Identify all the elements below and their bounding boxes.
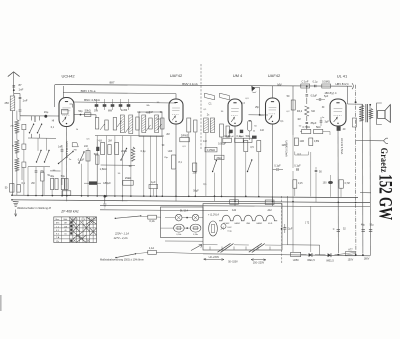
svg-text:0,1µ: 0,1µ [141, 150, 146, 153]
svg-text:87: 87 [19, 83, 23, 87]
svg-text:Graetz: Graetz [379, 148, 390, 173]
svg-text:0,05µF: 0,05µF [218, 142, 227, 146]
svg-text:0,1µF: 0,1µF [78, 159, 85, 162]
svg-text:U250: U250 [293, 259, 300, 262]
svg-text:152 GW: 152 GW [375, 174, 397, 220]
svg-text:0,1: 0,1 [22, 182, 26, 185]
svg-text:Wellenschalter in Stellung M: Wellenschalter in Stellung M [17, 206, 52, 210]
svg-text:1M: 1M [128, 166, 131, 168]
svg-text:1nF: 1nF [23, 99, 28, 103]
svg-text:UAF: UAF [168, 150, 173, 153]
svg-text:BMV 4,1mA: BMV 4,1mA [182, 82, 197, 86]
svg-text:2M: 2M [108, 140, 111, 143]
svg-text:1nF: 1nF [260, 129, 265, 132]
svg-text:250: 250 [4, 101, 9, 105]
svg-text:1,5kΩ: 1,5kΩ [100, 167, 107, 171]
svg-text:180µF: 180µF [103, 181, 111, 185]
svg-text:1,1A: 1,1A [149, 246, 155, 250]
svg-text:0,7M: 0,7M [345, 183, 350, 185]
svg-text:UM 4: UM 4 [233, 73, 243, 78]
svg-text:0,1µ: 0,1µ [313, 81, 318, 84]
svg-text:0,1Hz: 0,1Hz [193, 234, 198, 236]
svg-text:180V: 180V [364, 257, 370, 260]
svg-text:BNC 4,8mA: BNC 4,8mA [84, 98, 100, 102]
svg-text:U2–230V: U2–230V [209, 256, 220, 259]
svg-text:DFW3: DFW3 [181, 133, 189, 137]
svg-text:0,1Hz: 0,1Hz [176, 234, 181, 236]
svg-text:2M: 2M [166, 134, 169, 136]
svg-text:·180·8(y)·4: ·180·8(y)·4 [324, 91, 337, 95]
svg-text:0,15MΩ: 0,15MΩ [207, 150, 215, 152]
svg-text:150–220V: 150–220V [253, 261, 265, 264]
svg-text:BMV 17k-a: BMV 17k-a [81, 89, 96, 93]
svg-text:50µ: 50µ [61, 175, 66, 178]
svg-text:40µ: 40µ [361, 225, 366, 227]
svg-text:UAF42 0,5mA: UAF42 0,5mA [285, 141, 289, 158]
svg-text:40µ: 40µ [50, 175, 55, 178]
svg-text:0,15: 0,15 [298, 183, 303, 185]
svg-text:UAF42: UAF42 [234, 222, 240, 225]
svg-text:UM4: UM4 [246, 223, 250, 225]
svg-text:5kΩ: 5kΩ [94, 153, 99, 156]
svg-text:0,1µ: 0,1µ [228, 230, 233, 232]
svg-text:UAF42: UAF42 [268, 73, 281, 78]
svg-text:20kΩ: 20kΩ [121, 150, 127, 153]
svg-text:50µF: 50µF [193, 190, 199, 193]
svg-text:12M: 12M [300, 141, 305, 143]
svg-text:0,1A: 0,1A [149, 219, 155, 223]
svg-text:1M: 1M [297, 119, 300, 121]
svg-text:UAF42: UAF42 [170, 73, 183, 78]
svg-text:HBV 81V,4: HBV 81V,4 [335, 82, 349, 86]
svg-text:A42: A42 [232, 209, 237, 212]
svg-text:4M2: 4M2 [146, 112, 151, 115]
svg-text:Ber.: Ber. [56, 218, 60, 221]
svg-text:1nF: 1nF [19, 88, 24, 92]
svg-text:127V~ 2,2A: 127V~ 2,2A [113, 236, 127, 240]
svg-text:0,1µF: 0,1µF [274, 164, 281, 167]
svg-text:150V: 150V [348, 259, 354, 262]
svg-text:2µF: 2µF [288, 228, 293, 231]
svg-text:A42: A42 [267, 209, 272, 212]
svg-text:MV: MV [277, 82, 281, 86]
svg-text:C: C [333, 228, 335, 231]
svg-text:UAF42: UAF42 [256, 222, 262, 225]
svg-text:50p: 50p [78, 110, 83, 113]
svg-text:50pF: 50pF [239, 136, 245, 138]
svg-text:16µ: 16µ [44, 110, 49, 114]
svg-text:25kΩ: 25kΩ [216, 158, 222, 160]
svg-text:Wel.: Wel. [63, 219, 68, 221]
svg-text:4,8: 4,8 [98, 140, 102, 143]
svg-text:0,1µF: 0,1µF [228, 136, 234, 138]
svg-text:Maßstababweichung 150Ω ± 10%: Maßstababweichung 150Ω ± 10% 8mm [100, 258, 144, 261]
svg-text:J 72: J 72 [305, 223, 310, 225]
svg-text:1nF: 1nF [203, 141, 208, 143]
svg-text:220V~ 1,1A: 220V~ 1,1A [114, 231, 129, 235]
svg-text:0,7MΩ: 0,7MΩ [302, 126, 310, 129]
svg-text:+ (1,2V) A: + (1,2V) A [208, 213, 220, 216]
svg-text:887: 887 [109, 81, 114, 85]
svg-text:UL 41: UL 41 [337, 74, 348, 79]
svg-text:C 1nF: C 1nF [301, 80, 308, 84]
svg-text:5kΩ: 5kΩ [316, 126, 321, 129]
svg-text:UL41: UL41 [268, 223, 273, 225]
svg-text:Hf: Hf [52, 121, 55, 123]
svg-text:BL 12 A: BL 12 A [180, 209, 189, 212]
svg-text:1MΩ: 1MΩ [281, 144, 286, 147]
svg-text:50kΩ: 50kΩ [85, 109, 91, 113]
svg-text:R4,2: R4,2 [297, 110, 303, 113]
svg-text:0,1µF: 0,1µF [294, 164, 301, 167]
svg-text:UCH42: UCH42 [61, 74, 75, 79]
svg-text:A77: A77 [348, 248, 353, 251]
svg-text:2nF: 2nF [84, 145, 89, 148]
svg-text:0,5µF: 0,5µF [311, 94, 318, 97]
svg-text:3µF: 3µF [325, 121, 330, 124]
svg-text:50–150V: 50–150V [228, 260, 238, 263]
svg-text:WE1,5: WE1,5 [326, 259, 334, 262]
svg-text:5µF: 5µF [324, 95, 329, 98]
svg-text:2x450: 2x450 [121, 110, 128, 112]
svg-text:50µ: 50µ [370, 225, 375, 227]
svg-text:1µF: 1µF [151, 181, 156, 184]
svg-text:WE1,5: WE1,5 [307, 259, 315, 262]
svg-text:ZF 468 kHz: ZF 468 kHz [60, 210, 79, 214]
svg-text:UCH42: UCH42 [223, 223, 229, 225]
svg-text:0,5MΩ: 0,5MΩ [322, 80, 330, 84]
svg-text:29kΩ: 29kΩ [125, 176, 131, 180]
svg-text:M2: M2 [311, 110, 315, 113]
svg-text:86µF: 86µF [311, 122, 317, 125]
svg-text:0,5M: 0,5M [314, 141, 319, 143]
svg-text:UCL41 9,5mA: UCL41 9,5mA [340, 138, 344, 155]
